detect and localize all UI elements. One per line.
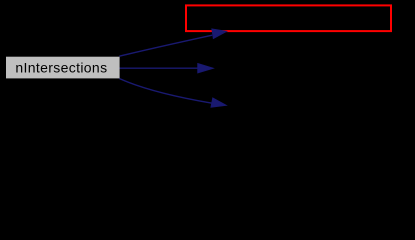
svg-text:nIntersections: nIntersections [15, 60, 107, 76]
